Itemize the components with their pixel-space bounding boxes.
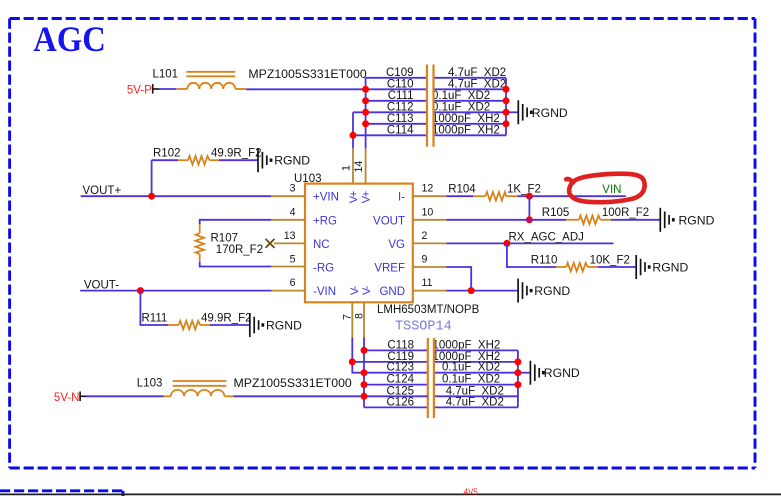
capacitor C125	[387, 385, 518, 397]
bottom separator line (next sheet, partial)	[0, 493, 781, 495]
pin 9 stub	[413, 266, 447, 268]
junction C113 right	[503, 120, 510, 127]
svg-text:RGND: RGND	[532, 106, 568, 120]
capacitor C114	[353, 124, 506, 136]
svg-text:RGND: RGND	[544, 366, 580, 380]
junction C112 left	[362, 109, 369, 116]
svg-text:R107: R107	[211, 232, 239, 244]
resistor R110	[531, 254, 636, 271]
junction C123 left	[361, 369, 368, 376]
svg-text:RGND: RGND	[274, 154, 310, 168]
junction C125 left (5V-N)	[361, 393, 368, 400]
partial border of next sheet	[0, 491, 123, 496]
junction C110 left	[362, 86, 369, 93]
resistor R104	[447, 184, 541, 201]
top cap plates	[426, 65, 428, 147]
svg-text:RGND: RGND	[679, 213, 715, 227]
wire 5V-N to L103	[87, 395, 164, 397]
ground RGND at R102	[258, 148, 310, 172]
junction C113 left	[362, 120, 369, 127]
svg-text:R110: R110	[531, 254, 558, 266]
svg-text:14: 14	[353, 161, 365, 173]
pin 11 stub	[413, 290, 447, 292]
op-amp U103	[294, 173, 480, 335]
top cap bank left bus (pin14 net)	[365, 78, 367, 149]
capacitor C111	[366, 90, 506, 102]
wire pin7	[351, 302, 353, 337]
junction C111 right	[503, 97, 510, 104]
junction C111 left	[362, 97, 369, 104]
svg-text:5: 5	[290, 254, 296, 266]
svg-text:I-: I-	[398, 192, 405, 204]
capacitor C109	[366, 67, 507, 79]
wire 5V-P to L101	[159, 88, 176, 90]
svg-text:RGND: RGND	[534, 284, 570, 298]
svg-text:L101: L101	[153, 69, 179, 81]
capacitor C110	[366, 78, 507, 90]
wire R104 to VIN	[517, 195, 625, 197]
wire pin1	[352, 148, 354, 183]
pin 12 stub	[413, 195, 447, 197]
svg-text:3: 3	[290, 183, 296, 195]
svg-text:4V5: 4V5	[464, 488, 479, 496]
wire VREF to GND row	[447, 267, 472, 291]
svg-text:MPZ1005S331ET000: MPZ1005S331ET000	[248, 67, 366, 81]
junction VOUT+	[148, 193, 155, 200]
ground RGND at R105	[660, 208, 714, 232]
wire L103 to bottom bus (C125 row)	[234, 395, 428, 397]
top cap right bus	[505, 78, 507, 136]
svg-text:100R_F2: 100R_F2	[602, 207, 649, 219]
svg-text:10K_F2: 10K_F2	[590, 254, 630, 266]
svg-text:MPZ1005S331ET000: MPZ1005S331ET000	[234, 376, 352, 390]
pin 5 stub	[271, 266, 305, 268]
junction C110 right	[503, 86, 510, 93]
svg-text:VOUT+: VOUT+	[83, 185, 122, 197]
junction C124 right	[514, 381, 521, 388]
svg-text:49.9R_F2: 49.9R_F2	[211, 148, 262, 160]
junction C123 right	[514, 369, 521, 376]
svg-text:VG: VG	[388, 239, 405, 251]
annotation red circle around VIN	[566, 174, 644, 203]
junction VOUT row	[526, 216, 533, 223]
capacitor C118	[364, 339, 518, 351]
ground RGND bottom cap bank	[530, 361, 579, 385]
pin 13 stub	[274, 242, 305, 244]
bottom left bus pin7	[352, 337, 364, 373]
svg-text:1: 1	[341, 165, 353, 171]
pin 6 stub	[272, 290, 305, 292]
wire L101 to cap bus	[246, 88, 365, 90]
svg-text:R104: R104	[448, 184, 476, 196]
junction C114 left	[350, 132, 357, 139]
svg-text:+VIN: +VIN	[313, 192, 339, 204]
capacitor C124	[364, 374, 518, 386]
ground RGND top cap bank	[518, 100, 568, 124]
ground RGND at pin 11	[518, 279, 570, 303]
top cap bank left bus (pin1 net)	[352, 112, 354, 148]
svg-text:AGC: AGC	[33, 19, 106, 59]
svg-text:VIN: VIN	[602, 184, 621, 196]
svg-text:12: 12	[422, 183, 434, 195]
capacitor C112	[353, 101, 506, 113]
svg-text:6: 6	[290, 277, 296, 289]
junction RX_AGC_ADJ	[503, 240, 510, 247]
wire to bottom RGND	[518, 372, 530, 374]
svg-text:11: 11	[422, 277, 433, 289]
capacitor C123	[364, 362, 518, 374]
svg-text:RGND: RGND	[266, 319, 302, 333]
svg-text:9: 9	[422, 254, 428, 266]
svg-text:170R_F2: 170R_F2	[216, 244, 263, 256]
wire pin8	[363, 302, 365, 337]
junction C124 left	[361, 381, 368, 388]
svg-text:-RG: -RG	[313, 263, 334, 275]
junction C112 right	[503, 109, 510, 116]
ground RGND at R111	[250, 313, 302, 337]
svg-text:VOUT-: VOUT-	[84, 279, 119, 291]
port 5V-P	[127, 84, 159, 96]
wire pin14	[365, 148, 367, 183]
wire RX_AGC_ADJ	[447, 242, 614, 244]
svg-text:RGND: RGND	[652, 261, 688, 275]
svg-text:5V-N: 5V-N	[54, 392, 80, 404]
junction C119 right	[514, 358, 521, 365]
svg-text:1K_F2: 1K_F2	[507, 184, 541, 196]
svg-text:R102: R102	[153, 148, 181, 160]
inductor L103	[164, 381, 234, 396]
inductor L101	[176, 72, 246, 89]
junction R104/VOUT node	[526, 193, 533, 200]
pin 2 stub	[413, 242, 447, 244]
svg-text:-VIN: -VIN	[313, 286, 336, 298]
port 5V-N	[54, 392, 87, 405]
svg-text:GND: GND	[379, 286, 405, 298]
svg-text:R105: R105	[542, 207, 570, 219]
pin 4 stub	[271, 219, 305, 221]
svg-text:2: 2	[422, 230, 428, 242]
junction C118 left	[361, 347, 368, 354]
pin 3 stub	[271, 195, 305, 197]
junction VOUT-	[137, 287, 144, 294]
svg-text:4: 4	[290, 206, 296, 218]
svg-text:TSSOP14: TSSOP14	[395, 320, 452, 335]
wire to top RGND	[506, 111, 518, 113]
wire VOUT-	[80, 290, 271, 292]
svg-text:V+: V+	[361, 191, 373, 203]
svg-text:+RG: +RG	[313, 215, 337, 227]
svg-text:10: 10	[422, 206, 434, 218]
capacitor C126	[364, 396, 518, 408]
svg-text:RX_AGC_ADJ: RX_AGC_ADJ	[509, 231, 584, 243]
svg-text:VREF: VREF	[374, 263, 405, 275]
junction C119 left	[349, 358, 356, 365]
wire junction to R110	[507, 243, 556, 267]
wire node down to VOUT row	[528, 196, 530, 220]
wire VOUT- to R111	[140, 291, 168, 325]
capacitor C113	[366, 113, 506, 125]
svg-text:NC: NC	[313, 239, 330, 251]
svg-text:VOUT: VOUT	[373, 215, 405, 227]
svg-text:R111: R111	[142, 313, 168, 325]
no-connect X pin 13	[266, 239, 275, 248]
svg-text:7: 7	[342, 314, 354, 320]
svg-text:5V-P: 5V-P	[127, 84, 152, 96]
svg-text:V+: V+	[348, 191, 360, 203]
resistor R102	[152, 148, 262, 165]
svg-text:13: 13	[284, 230, 296, 242]
wire GND row	[447, 290, 518, 292]
svg-text:LMH6503MT/NOPB: LMH6503MT/NOPB	[377, 304, 480, 316]
capacitor C119	[352, 351, 518, 363]
junction VREF/GND	[468, 287, 475, 294]
resistor R107	[196, 220, 272, 267]
resistor R105	[542, 207, 660, 224]
wire VOUT row	[447, 219, 567, 221]
pin 10 stub	[413, 219, 447, 221]
svg-text:L103: L103	[137, 377, 163, 389]
ground RGND at R110	[636, 255, 688, 279]
wire VOUT+	[81, 195, 272, 197]
bottom left bus pin8	[363, 337, 365, 407]
bottom cap plates	[427, 338, 429, 418]
svg-text:49.9R_F2: 49.9R_F2	[201, 313, 252, 325]
resistor R111	[142, 313, 252, 330]
svg-text:8: 8	[354, 313, 366, 319]
wire R102 to VOUT+	[151, 160, 153, 196]
bottom cap right bus	[517, 350, 519, 407]
